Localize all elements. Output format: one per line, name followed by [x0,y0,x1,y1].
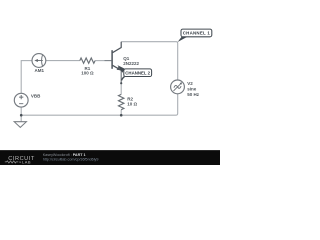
svg-text:CHANNEL 1: CHANNEL 1 [183,31,211,36]
svg-text:V2: V2 [187,81,193,86]
svg-text:10 Ω: 10 Ω [127,101,137,106]
svg-text:50 Hz: 50 Hz [187,92,200,97]
svg-text:sine: sine [187,87,197,92]
svg-text:100 Ω: 100 Ω [81,71,94,76]
svg-text:http://circuitlab.com/cp/36f5n: http://circuitlab.com/cp/36f5nd6ly9 [43,158,99,162]
svg-text:AM1: AM1 [35,68,45,73]
svg-text:CHANNEL 2: CHANNEL 2 [125,70,150,75]
svg-text:VBB: VBB [31,94,41,99]
svg-text:KaseyWoodcroft : PART 1: KaseyWoodcroft : PART 1 [43,153,86,157]
svg-text:2N2222: 2N2222 [123,61,139,66]
svg-text:LAB: LAB [22,160,31,165]
